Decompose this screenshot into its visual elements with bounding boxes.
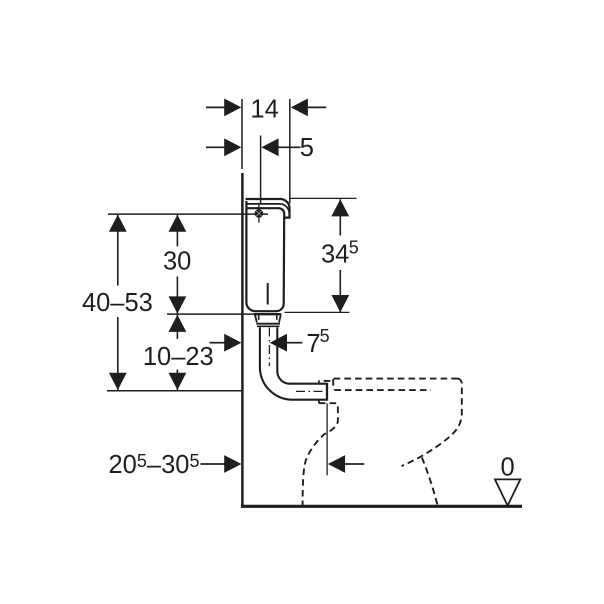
svg-text:0: 0 (501, 454, 515, 482)
svg-text:7: 7 (306, 330, 320, 358)
svg-text:14: 14 (250, 95, 278, 123)
svg-text:205–305: 205–305 (109, 451, 200, 479)
svg-text:5: 5 (300, 134, 314, 162)
svg-text:30: 30 (163, 248, 191, 276)
svg-text:5: 5 (320, 326, 330, 346)
svg-text:34: 34 (321, 240, 349, 268)
svg-text:5: 5 (349, 237, 359, 257)
svg-text:40–53: 40–53 (82, 289, 153, 317)
svg-text:10–23: 10–23 (143, 343, 214, 371)
